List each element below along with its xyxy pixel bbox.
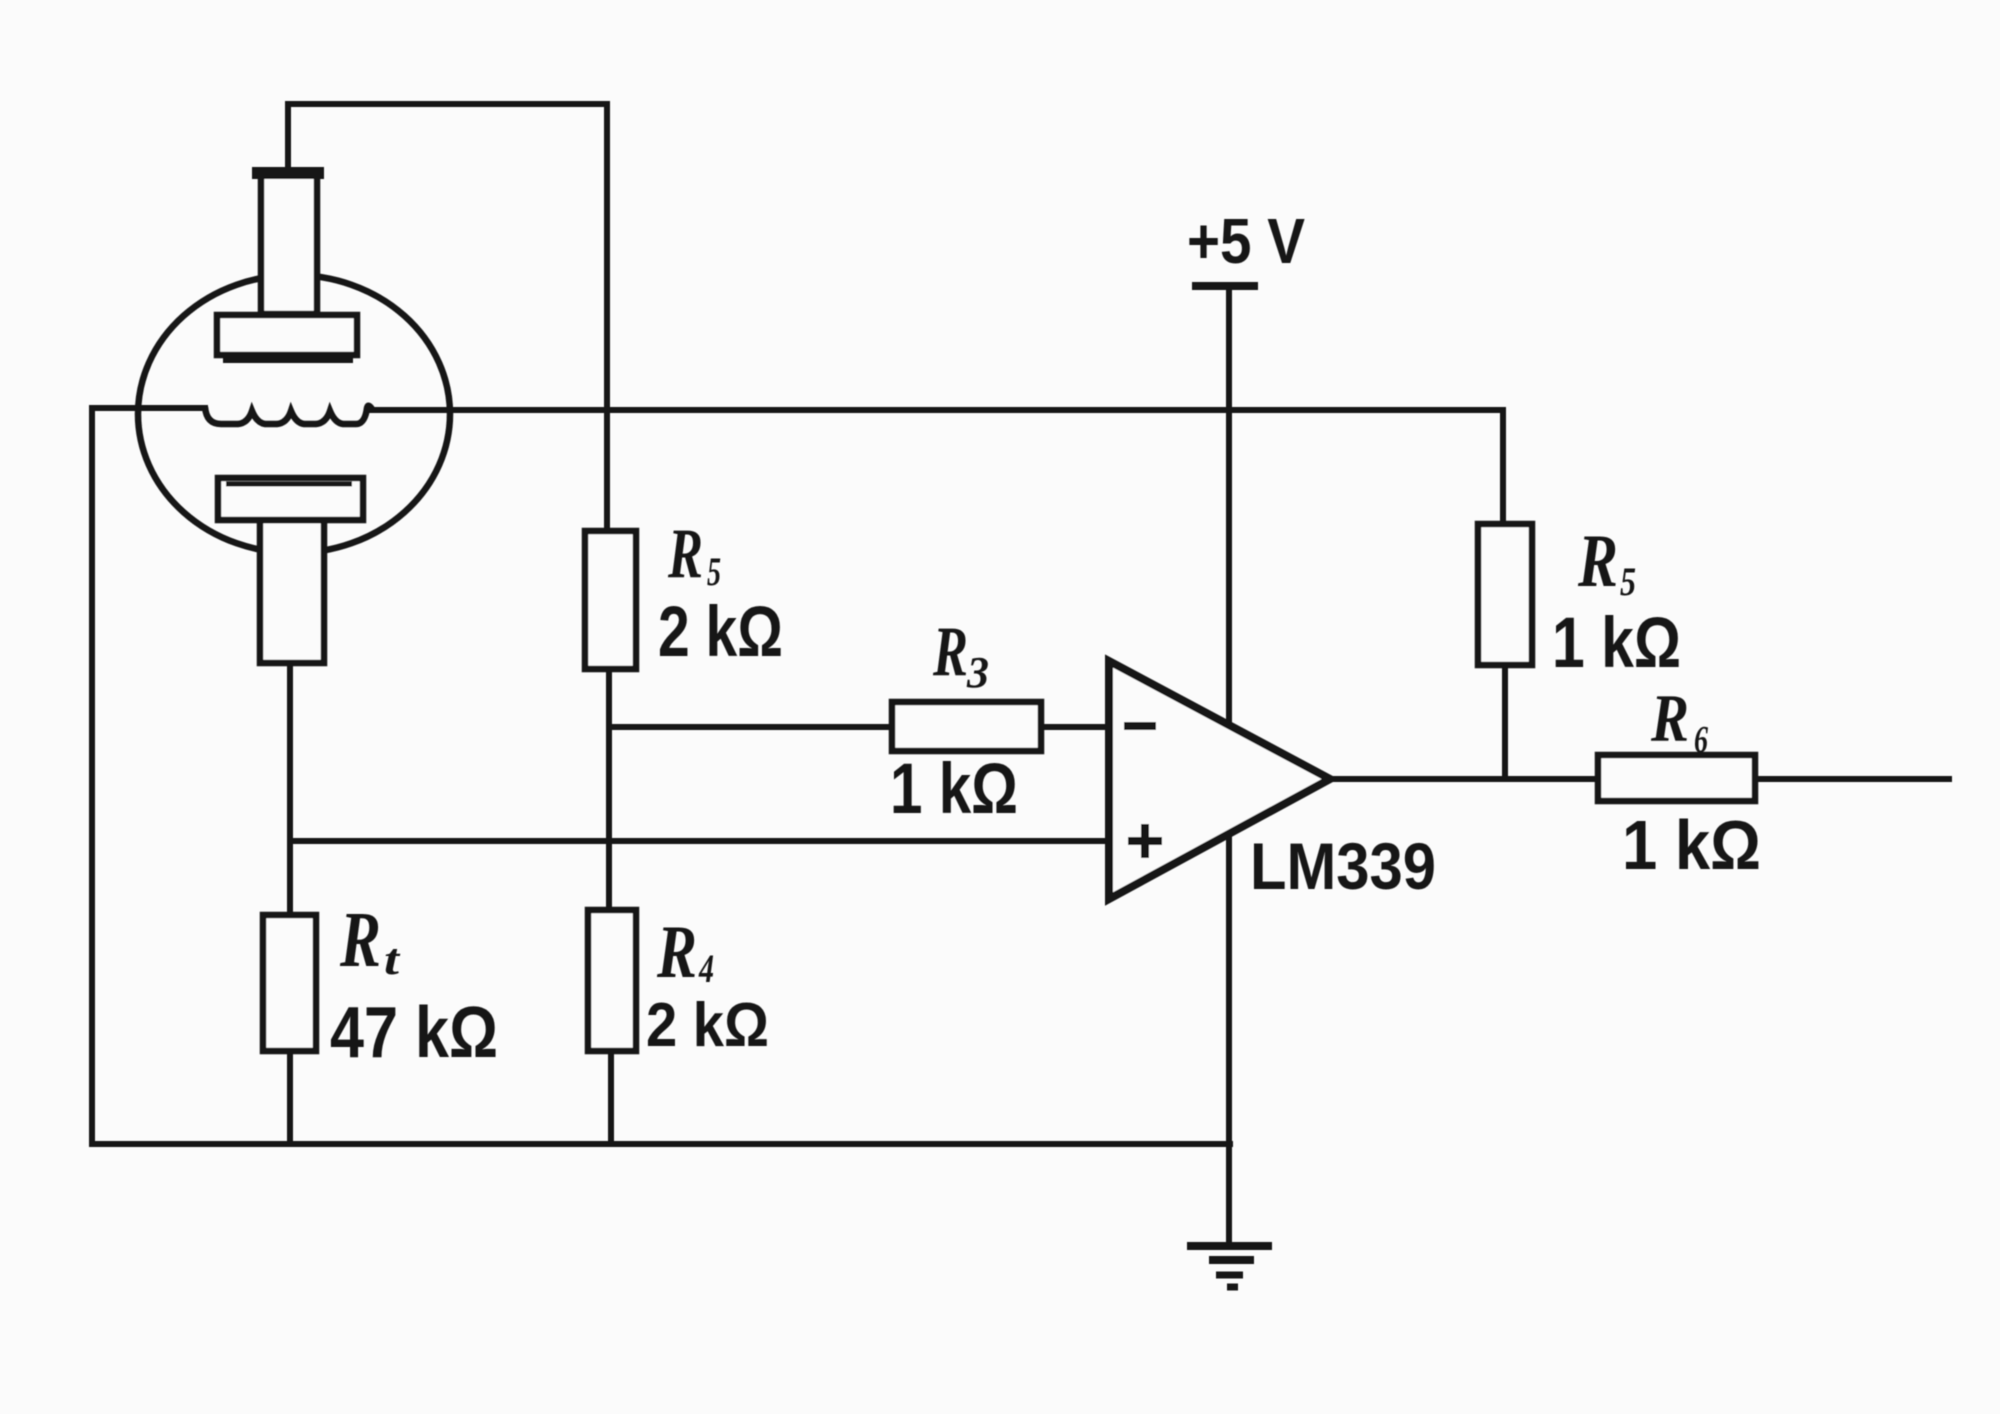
svg-text:6: 6 (1694, 719, 1708, 761)
gas sensor top electrode plate (217, 315, 357, 355)
svg-text:2 kΩ: 2 kΩ (646, 991, 769, 1060)
resistor R2 (1 kOhm to inverting input) (892, 702, 1041, 751)
op-amp plus sign (1128, 824, 1162, 858)
wire +5V vertical (1226, 286, 1232, 1246)
wire R3 to R4 rail (606, 669, 612, 910)
wire output right (1755, 776, 1949, 782)
op-amp minus sign (1124, 722, 1156, 730)
gas sensor heater coil (205, 406, 372, 424)
wire left rail (89, 410, 95, 1144)
resistor R3 (2 kOhm divider, top middle) (585, 531, 636, 669)
gas sensor bottom electrode plate (218, 478, 363, 520)
gas sensor top plate lower line (223, 357, 353, 363)
wire heater line right (369, 407, 1503, 413)
op-amp U1 LM339 (1109, 661, 1330, 899)
wire minus input left (609, 724, 892, 730)
wire top loop (288, 104, 607, 531)
wire R1 bottom (287, 1051, 293, 1144)
svg-text:LM339: LM339 (1250, 829, 1436, 903)
svg-text:R: R (656, 911, 697, 994)
svg-text:4: 4 (698, 946, 714, 991)
gas sensor bottom plate upper line (226, 482, 352, 487)
gas sensor bottom lead (260, 520, 324, 663)
resistor Rt (47 kOhm) (263, 915, 316, 1051)
svg-text:t: t (384, 935, 401, 984)
wire op-amp output (1330, 776, 1598, 782)
gas sensor top lead (261, 172, 317, 314)
svg-text:1 kΩ: 1 kΩ (1552, 604, 1681, 683)
svg-text:R: R (1650, 680, 1689, 756)
wire minus input right (1041, 724, 1109, 730)
svg-text:+5 V: +5 V (1187, 205, 1305, 277)
wire heater line left (92, 405, 205, 411)
wire bottom rail (92, 1141, 1230, 1147)
svg-text:R: R (667, 515, 703, 593)
resistor R5 (1 kOhm pull-up) (1478, 524, 1532, 665)
wire R4 bottom (608, 1051, 614, 1144)
svg-text:47 kΩ: 47 kΩ (330, 993, 498, 1073)
gas sensor top cap (252, 167, 324, 179)
gas sensor body circle (138, 275, 450, 553)
svg-text:R: R (1577, 520, 1618, 603)
svg-text:1 kΩ: 1 kΩ (890, 750, 1018, 829)
svg-text:5: 5 (1620, 559, 1636, 604)
svg-text:2 kΩ: 2 kΩ (658, 593, 783, 672)
svg-text:1 kΩ: 1 kΩ (1622, 806, 1761, 884)
wire sensor bottom lead (287, 663, 293, 915)
wire R5 top branch (1500, 410, 1506, 524)
ground (1187, 1246, 1272, 1287)
wire R5 bottom branch (1502, 665, 1508, 779)
svg-text:R: R (339, 897, 381, 984)
resistor R6 (1 kOhm output) (1598, 755, 1755, 801)
svg-text:5: 5 (707, 549, 721, 594)
resistor R4 (2 kOhm divider) (588, 910, 636, 1051)
svg-text:3: 3 (966, 648, 989, 697)
wire plus input (290, 838, 1109, 844)
svg-text:R: R (932, 613, 968, 691)
+5V supply bar (1192, 282, 1258, 290)
